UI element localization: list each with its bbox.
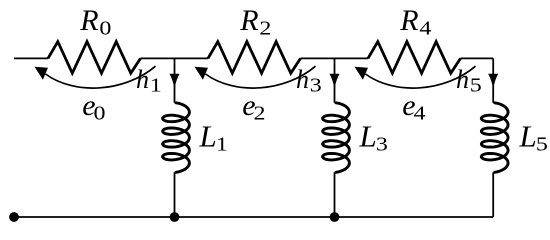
- wire node h3 wire R2-R4: [301, 57, 369, 59]
- arrowhead e2: [195, 67, 209, 80]
- wire bottom rail: [14, 216, 493, 218]
- wire node to inductor L5 top: [492, 58, 494, 102]
- svg-text:R: R: [239, 4, 258, 37]
- svg-text:2: 2: [254, 101, 266, 124]
- svg-text:h: h: [456, 65, 469, 94]
- wire inductor L1 bottom to ground rail: [174, 172, 176, 217]
- resistor R4: [368, 42, 461, 74]
- wire inductor L3 bottom to ground rail: [334, 172, 336, 217]
- node dot junction L1: [170, 212, 180, 222]
- resistor R2: [208, 42, 301, 74]
- svg-text:h: h: [296, 65, 309, 94]
- svg-text:0: 0: [94, 101, 106, 124]
- wire node to inductor L1 top: [174, 58, 176, 102]
- svg-text:R: R: [79, 4, 98, 37]
- svg-text:1: 1: [216, 132, 228, 155]
- svg-text:L: L: [199, 119, 217, 154]
- resistor R0: [48, 42, 141, 74]
- svg-text:h: h: [136, 65, 149, 94]
- arrowhead e4: [355, 67, 369, 80]
- svg-text:L: L: [359, 119, 377, 154]
- wire inductor L5 bottom to ground rail: [492, 172, 494, 217]
- current arrow on L5 branch: [488, 74, 498, 88]
- wire left terminal to R0: [14, 57, 48, 59]
- wire node to inductor L3 top: [334, 58, 336, 102]
- node dot junction L3: [330, 212, 340, 222]
- svg-text:R: R: [399, 4, 418, 37]
- wire wire R4 to right corner: [461, 57, 494, 59]
- inductor L3: [323, 103, 350, 173]
- svg-text:3: 3: [310, 73, 322, 96]
- svg-text:4: 4: [419, 16, 431, 39]
- arrow curve e4: [366, 66, 476, 88]
- svg-text:3: 3: [376, 132, 388, 155]
- wire node h1 wire R0-R2: [141, 57, 209, 59]
- current arrow on L3 branch: [329, 74, 339, 88]
- node dot left terminal: [9, 212, 19, 222]
- inductor L1: [163, 103, 190, 173]
- arrowhead e0: [35, 67, 49, 80]
- arrow curve e0: [46, 66, 156, 88]
- svg-text:4: 4: [414, 101, 426, 124]
- svg-text:5: 5: [536, 132, 548, 155]
- svg-text:2: 2: [259, 16, 271, 39]
- arrow curve e2: [206, 66, 316, 88]
- svg-text:5: 5: [470, 73, 482, 96]
- svg-text:L: L: [519, 119, 537, 154]
- inductor L5: [481, 103, 508, 173]
- svg-text:1: 1: [150, 73, 162, 96]
- current arrow on L1 branch: [169, 74, 179, 88]
- svg-text:0: 0: [99, 16, 111, 39]
